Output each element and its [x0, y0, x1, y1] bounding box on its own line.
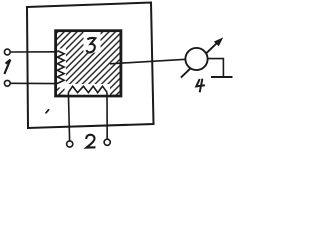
terminal 2 left: [67, 141, 73, 147]
terminal 1 lower: [4, 80, 10, 86]
wire: meter to ground: [207, 59, 223, 77]
ground: [211, 76, 233, 78]
hatched block 3 (measuring cell body): [56, 31, 121, 96]
wire: block to meter: [110, 59, 186, 64]
terminal 1 upper: [4, 49, 10, 55]
label 1: [4, 60, 10, 74]
terminal 2 right: [104, 139, 110, 145]
wire: lower-left terminal to block: [10, 82, 57, 84]
meter 4 (circle): [185, 48, 207, 70]
white strip for bottom winding: [65, 84, 111, 95]
white patch behind label 3: [84, 32, 101, 53]
wire: upper-left terminal to block: [10, 51, 57, 53]
label 4: [196, 79, 205, 93]
wire: left bottom lead down: [68, 93, 69, 141]
white strip for left winding: [57, 49, 66, 88]
meter arrow shaft: [181, 41, 220, 78]
wire: right bottom lead down: [106, 92, 108, 139]
resistor (bottom heater winding): [68, 86, 107, 92]
meter arrow head: [214, 37, 223, 46]
ink speck: [46, 110, 49, 113]
label 3: [87, 38, 96, 52]
outer enclosure box: [27, 3, 154, 129]
resistor (left heater winding): [57, 51, 64, 84]
label 2: [86, 135, 95, 148]
